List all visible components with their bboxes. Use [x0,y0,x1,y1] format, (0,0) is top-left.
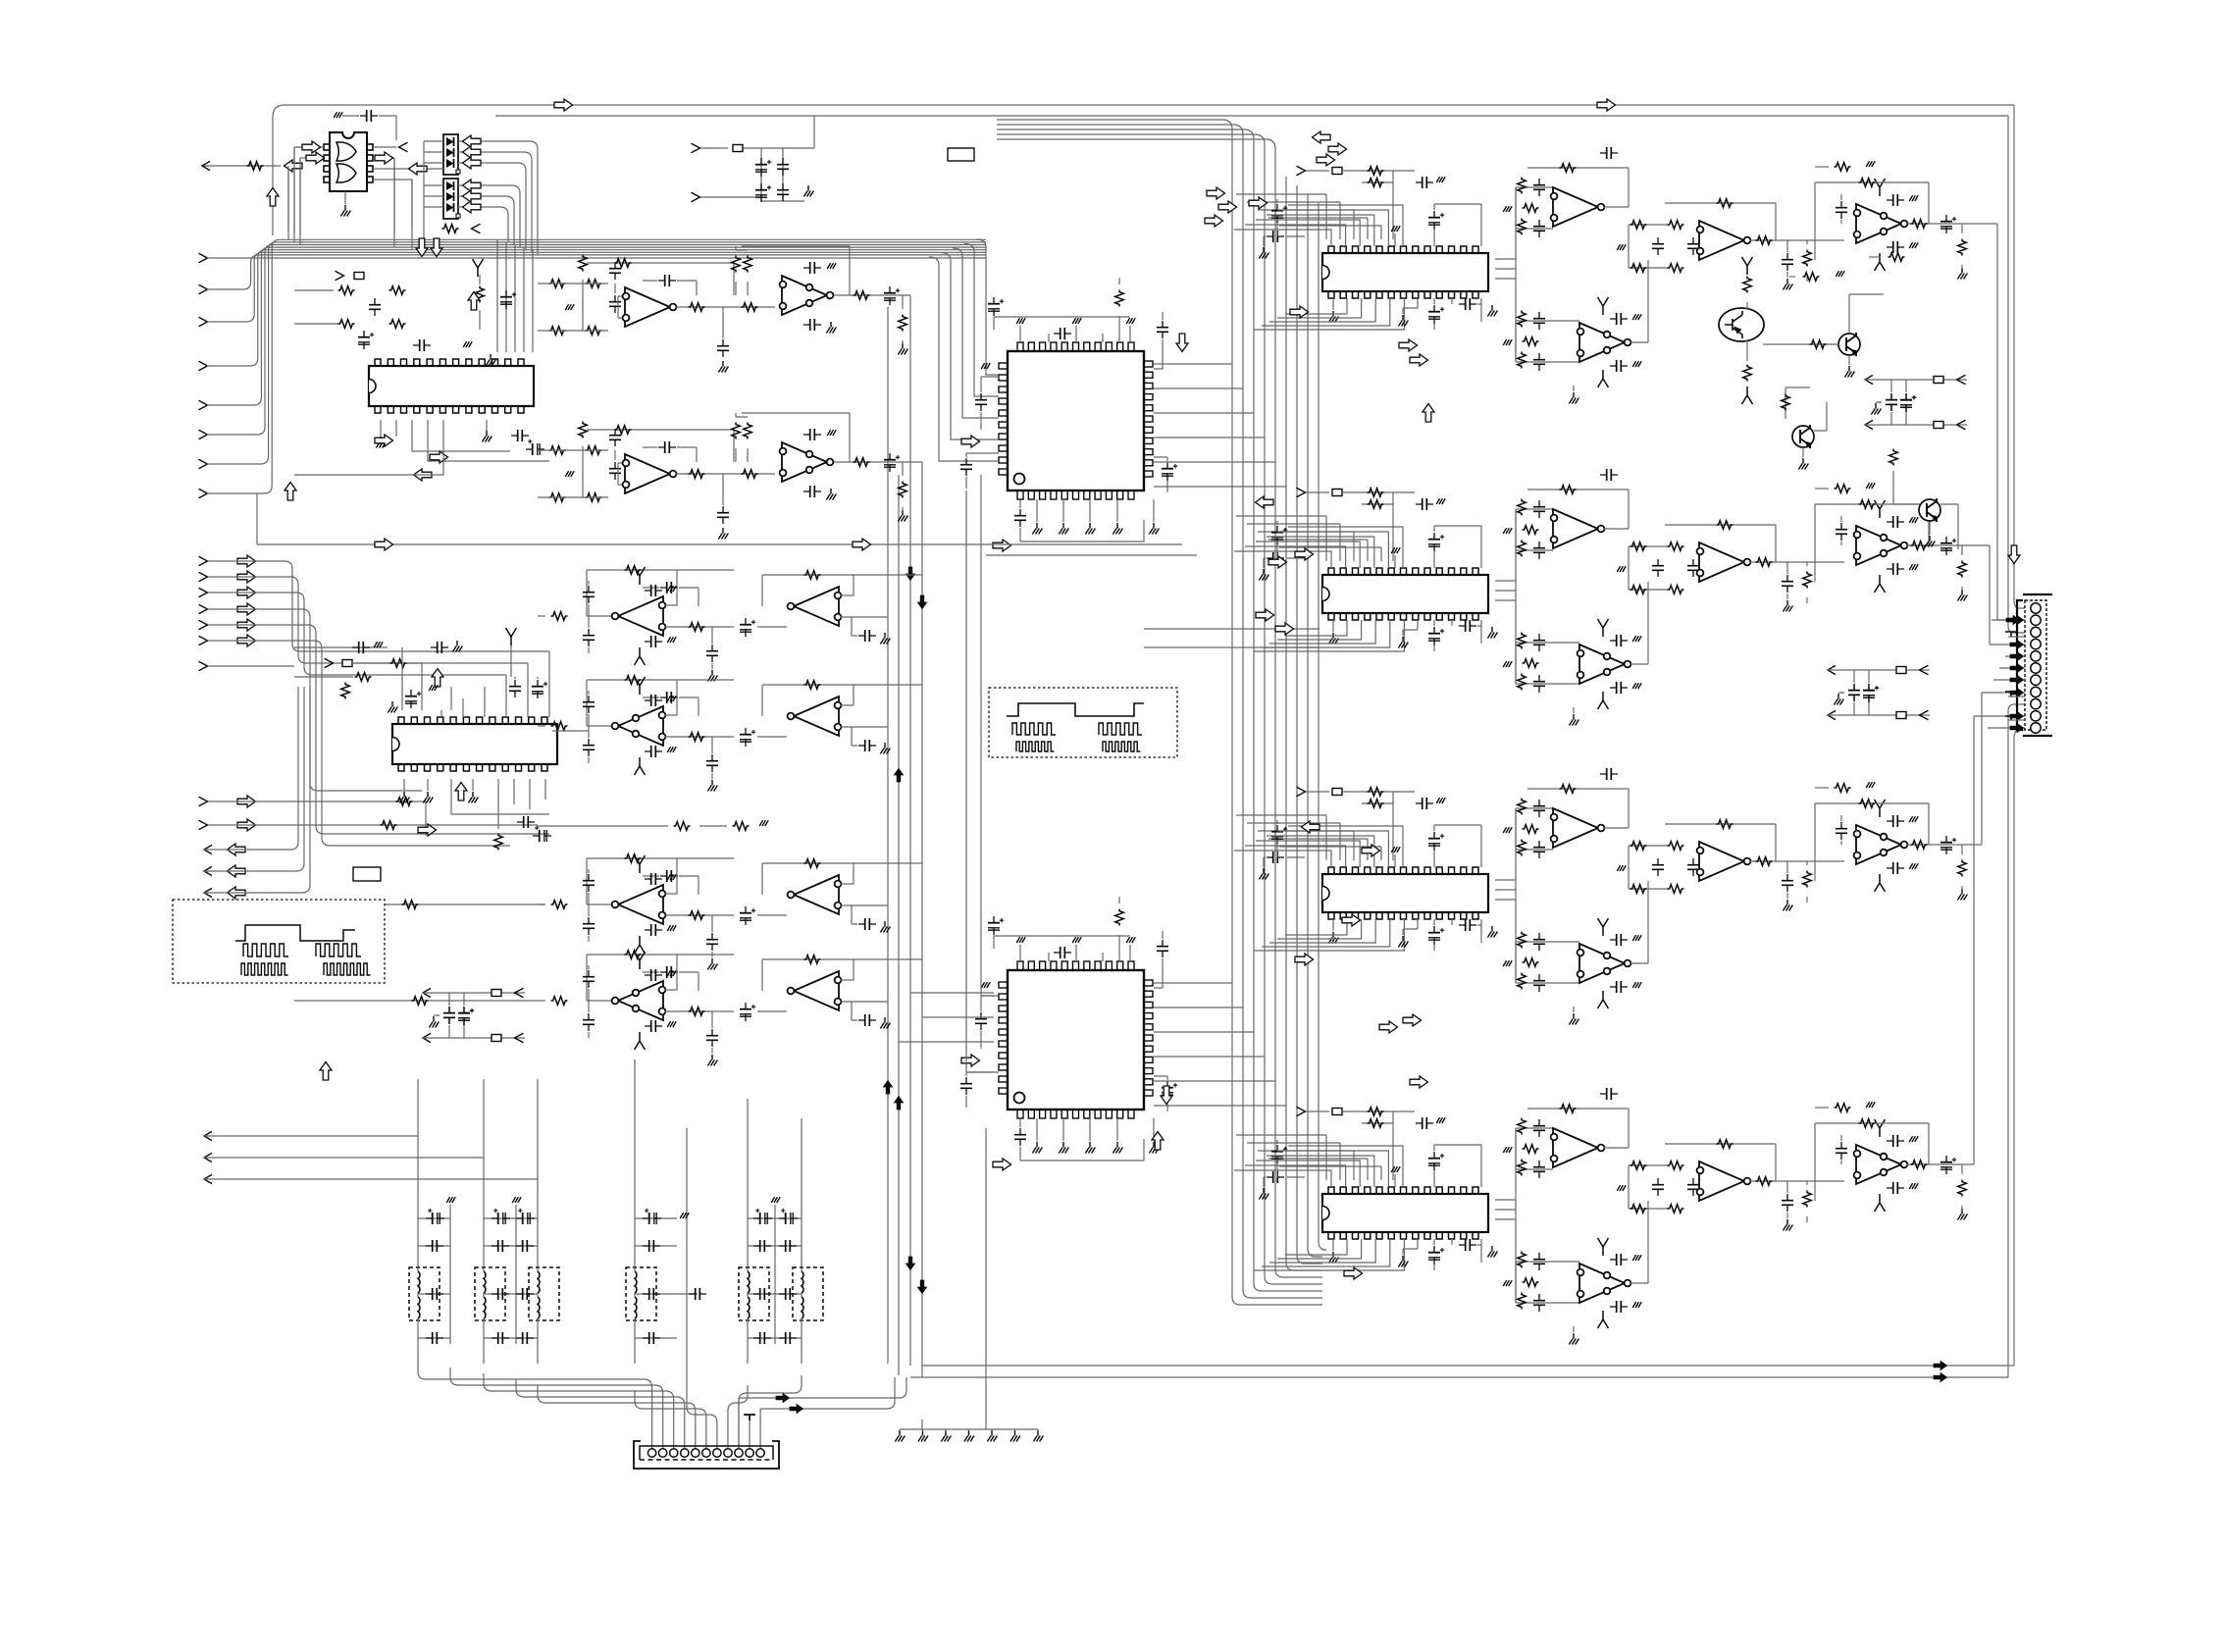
resistor [1668,542,1684,551]
wire [1343,492,1415,504]
wire [1332,298,1334,310]
wire [1552,517,1554,519]
bus arrow [2010,675,2024,684]
wire [1020,1118,1144,1161]
bus to DIP wire [1268,540,1368,561]
wire [1814,402,1827,431]
signal arrow [1268,556,1287,568]
capacitor [645,636,662,647]
input connector [1297,787,1306,797]
wire [1516,1128,1553,1169]
bus arrow [2010,688,2024,697]
ground [1032,523,1042,535]
wire [1840,670,1869,715]
bus vertical [1254,150,1322,1291]
ground [1503,661,1512,667]
resistor [551,997,568,1006]
connector [1957,420,1966,430]
signal arrow up [285,483,296,501]
capacitor [413,339,431,351]
ground [1016,937,1025,943]
resistor [1523,204,1539,213]
ground [1617,865,1626,871]
wire [722,307,724,338]
wire [422,1037,525,1039]
capacitor [583,739,595,756]
ground [1632,683,1641,689]
waveform pulse train [1103,742,1140,751]
resistor [625,566,642,575]
op-amp stage 2 [780,442,834,482]
ground [1072,318,1081,324]
wire [538,725,545,727]
resistor [625,676,642,685]
bus vertical [1319,203,1326,1250]
capacitor [1887,516,1904,528]
wire [1343,171,1415,182]
signal arrow [1302,821,1320,833]
wire [757,736,787,738]
gate bus tap [393,158,395,247]
arrowhead left [204,1131,212,1140]
polarized capacitor [1428,211,1444,230]
feedback wire [1665,203,1776,240]
wire [841,959,854,980]
capacitor [1014,1128,1026,1146]
resistor [549,280,566,288]
polarized capacitor [643,1209,661,1224]
bus drop wire [527,663,529,717]
polarized capacitor [884,286,900,305]
IC3 filter DIP [1322,246,1488,298]
wire [287,166,289,232]
IC5 filter DIP [1322,867,1488,919]
ground [803,185,813,197]
diode array D1 [443,134,458,175]
wire [483,1320,485,1364]
input connector [199,572,208,582]
waveform trace [1007,703,1144,716]
polarized capacitor [740,906,755,925]
resistor [1835,163,1851,172]
wire [1089,499,1091,522]
ground [981,982,990,988]
signal arrow [1362,845,1380,856]
capacitor [645,746,662,757]
wire [351,662,422,664]
polarized capacitor [1428,1246,1444,1265]
ground [1503,206,1512,212]
capacitor [426,1240,443,1252]
junction wire [1515,1128,1517,1303]
ground [941,1430,951,1442]
capacitor [1533,1161,1545,1178]
signal arrow [237,603,256,615]
DIP bottom wire [1277,620,1362,640]
wire [945,1429,947,1431]
polarized capacitor [1428,926,1444,945]
capacitor [779,1240,797,1252]
signal arrow [1207,187,1225,199]
supply Y [1598,619,1609,637]
ground [1503,827,1512,833]
wire [1332,1239,1334,1251]
polarized capacitor [500,290,516,309]
supply Y [1875,800,1886,817]
ground [1632,935,1641,941]
bus arrow [2010,651,2024,660]
ground [1112,523,1122,535]
feedback wire [1665,525,1776,562]
ground [1398,315,1408,327]
bus wire [1144,628,1319,630]
ground [1085,1142,1095,1154]
resistor [1803,273,1820,282]
connector [515,1033,524,1043]
supply Y [1875,1119,1886,1137]
polarized capacitor [532,680,547,698]
wire [427,779,429,791]
ground [1909,564,1918,570]
gate bus tap [411,180,413,249]
supply Y [506,628,517,645]
jumper [492,1035,501,1042]
bus drop wire [505,675,507,717]
resistor [689,911,705,920]
resistor [1630,264,1647,273]
resistor [1518,674,1526,691]
input wire [294,1000,538,1002]
ground [1436,798,1445,803]
resistor [1743,365,1752,382]
op-amp [1551,1128,1605,1167]
wire [1062,499,1064,522]
resistor [1630,586,1647,594]
feedback wire [1665,1144,1776,1181]
ground [1957,889,1967,901]
input connector [199,636,208,645]
capacitor [1533,220,1545,237]
resistor [733,822,750,831]
signal arrow [1403,1014,1422,1026]
cap row wire [748,1218,775,1338]
wire [686,1128,688,1397]
bus to QFP wire [976,239,999,375]
resistor [899,315,907,332]
wire [1789,276,1795,278]
resistor [1523,337,1539,346]
wire [1786,240,1788,278]
wire [1495,258,1516,260]
wire [1806,240,1808,282]
resistor [396,798,413,806]
ground [1328,932,1338,944]
feedback wire [1527,490,1629,529]
wire [841,685,854,705]
transistor Q3 [1792,425,1814,448]
ground [565,471,574,477]
signal arrow [228,887,246,899]
resistor [804,955,821,964]
capacitor [1416,1117,1433,1129]
left bus vertical [272,117,274,235]
transformer cap link wire [418,1293,450,1295]
transformer cap link wire [516,1293,538,1295]
DIP bottom wire [1262,298,1390,326]
cap row wire [775,1218,802,1338]
capacitor [1652,858,1664,876]
capacitor [1610,934,1628,946]
ground [1259,247,1268,259]
signal arrow [1399,339,1418,351]
signal arrow [1410,1076,1428,1088]
cap row wire [516,1218,538,1338]
polarized capacitor [492,1209,510,1224]
wire [1343,792,1415,803]
input bus wire [207,245,986,436]
op-amp [788,697,842,736]
wire [761,575,763,606]
bus vertical [1308,194,1322,1257]
output riser wire [1972,693,2025,845]
diode array D2 [443,179,458,219]
capacitor [660,966,678,978]
wire [922,1128,986,1429]
QFP wire [1154,461,1275,463]
wire [1392,504,1394,561]
bottom bus line [922,1365,2014,1367]
capacitor [1533,933,1545,951]
capacitor [492,1288,509,1300]
polarized capacitor [358,331,374,349]
signal arrow up [1152,1132,1164,1151]
capacitor [583,874,595,892]
polarized capacitor [1863,684,1879,702]
ground [1126,937,1135,943]
capacitor [1157,940,1168,957]
wire [1516,808,1553,850]
wire [665,858,677,894]
signal arrow right [375,152,393,164]
capacitor [1459,620,1476,632]
capacitor [1416,177,1433,188]
wire [1516,942,1579,983]
DIP bottom wire [1269,620,1375,644]
capacitor [1533,634,1545,651]
op-amp [612,885,666,924]
left vertical bus 2 [921,462,923,1377]
signal arrow [418,824,437,836]
signal arrow [237,635,256,646]
capacitor [706,933,718,951]
capacitor [1886,393,1897,411]
resistor [1115,909,1124,926]
DIP top wire [1256,841,1360,867]
bus arc wire [997,139,1275,168]
wire [1516,643,1579,684]
DIP bottom wire [1254,620,1404,651]
bottom bus line 2 [910,1376,2008,1378]
resistor [1518,178,1526,194]
resistor [1630,1162,1647,1170]
resistor [1668,885,1684,894]
resistor [402,901,419,909]
wire [1806,861,1808,903]
wire [1154,457,1167,492]
wire [1785,387,1810,419]
resistor [1958,561,1967,578]
bus drop wire [462,698,464,717]
DIP top wire [1256,542,1360,568]
capacitor [509,680,521,697]
wire [1306,791,1329,793]
capacitor [1459,1239,1476,1251]
ground [1259,569,1268,581]
ground [1632,314,1641,320]
wire [1392,803,1394,860]
wire [1495,268,1516,270]
wire [537,1320,539,1364]
wire [1495,590,1516,592]
ground [1783,1219,1792,1231]
capacitor [858,740,876,751]
bus to DIP wire [1258,831,1354,860]
bus wire [1144,646,1319,648]
wire [587,955,614,1001]
wires below IC2 [514,779,545,809]
bus to DIP wire [1258,532,1354,561]
feedback wire [587,430,734,462]
polarized capacitor [1428,1152,1444,1170]
resistor [341,683,350,699]
gate bus tap [293,147,295,242]
signal arrow [993,540,1011,551]
resistor [1630,842,1647,851]
wire [981,377,999,430]
wire [1827,714,1930,716]
signal arrow [237,571,256,583]
signal arrow [1275,623,1294,635]
capacitor [858,630,876,642]
output wire [203,687,298,850]
wire [1961,224,1963,269]
wire [736,413,748,462]
resistor [338,320,355,329]
jumper [354,273,364,280]
op-amp [788,971,842,1010]
ground [1909,863,1918,869]
wire [342,116,396,147]
ground [1503,960,1512,966]
wire [1864,379,1967,381]
gate bus tap [423,229,425,252]
connector feed wire [516,1379,685,1449]
output wire [203,687,310,893]
right bus vertical lower [2014,730,2025,1366]
capacitor [803,262,821,274]
wire [412,420,549,461]
bus vertical [1265,159,1322,1284]
wire [1089,1118,1091,1141]
input wire [208,577,528,663]
capacitor [1687,1178,1699,1196]
wire [1992,619,2025,621]
polarized capacitor [458,1007,474,1025]
jumper [1896,712,1906,719]
wire [852,617,857,636]
bus to QFP wire [929,257,999,461]
bus tap wire [505,242,507,352]
connector [336,271,344,281]
wire [1750,239,1844,241]
capacitor [511,430,529,441]
op-amp [1697,1162,1751,1201]
ground [1925,536,1935,547]
bus arrow [883,1081,892,1095]
ground [565,304,574,310]
ground [1569,1013,1578,1025]
resistor [1523,825,1539,834]
wire [294,420,443,475]
wire [1495,599,1516,601]
DIP bottom wire [1285,1239,1347,1255]
wire [2005,655,2025,657]
capacitor [1610,1254,1628,1265]
supply Y [1742,387,1753,404]
resistor [1523,1278,1539,1287]
ground [964,1430,974,1442]
capacitor [1610,1301,1628,1313]
wire [1906,1163,1972,1165]
bus wire [986,554,1197,556]
ground [1032,1142,1042,1154]
signal arrow [1342,914,1361,926]
resistor [732,423,741,439]
transistor Q2 [1838,333,1860,356]
resistor [1368,167,1384,176]
diode bus wire [496,207,508,243]
signal arrow [375,435,393,446]
grid wires [538,250,615,331]
wire [1806,1181,1808,1222]
ground [1632,1302,1641,1308]
polarized capacitor [1428,305,1444,324]
ground [1328,311,1338,323]
ground [1866,1102,1875,1108]
signal arrow down [1176,334,1188,352]
resistor [1911,1161,1928,1169]
wire [1802,447,1804,457]
wire [373,168,443,170]
ground [898,343,907,355]
waveform pulse train [1012,723,1056,735]
DIP top wire [1288,1146,1403,1187]
signal arrow down [1161,1086,1172,1105]
wire [643,281,697,295]
feedback wire [1527,1109,1629,1148]
capacitor [1887,1182,1904,1194]
capacitor [1652,237,1664,255]
input connector [199,400,208,410]
capacitor [1533,179,1545,196]
ground [1503,339,1512,345]
wire [665,914,734,916]
ground [423,792,433,803]
wire [1988,727,2025,729]
wire [1118,897,1120,961]
resistor [615,426,632,435]
signal arrow [1328,143,1347,155]
